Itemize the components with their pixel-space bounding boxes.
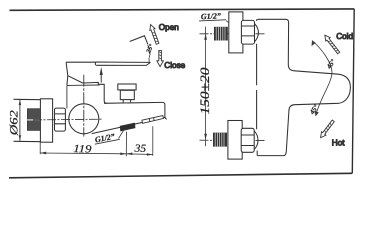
label G1/2 left view xyxy=(93,131,120,145)
faucet body front outline xyxy=(257,19,350,155)
svg-text:45°: 45° xyxy=(308,103,321,117)
lever raised position line xyxy=(130,36,148,45)
lever tip tick xyxy=(148,58,150,63)
arc arrowhead top xyxy=(312,41,316,47)
cold arrow (outlined, hatched) xyxy=(323,33,341,54)
bottom escutcheon xyxy=(228,121,242,160)
dimension D62 extension top xyxy=(14,98,42,100)
svg-text:150±20: 150±20 xyxy=(198,67,212,115)
dimension 35 line xyxy=(126,153,153,156)
top escutcheon xyxy=(229,12,243,53)
extension line hose connector xyxy=(152,126,154,156)
svg-text:Cold: Cold xyxy=(336,32,353,41)
body top line xyxy=(67,84,100,86)
svg-text:Open: Open xyxy=(159,23,179,32)
body left edge upper xyxy=(256,19,258,129)
top hex nut front xyxy=(241,20,258,44)
spout top edge xyxy=(104,102,167,119)
dimension 119 arrows xyxy=(40,152,46,155)
svg-text:Close: Close xyxy=(164,61,185,70)
bottom thread nipple (hatched) xyxy=(213,133,227,147)
close arrow (outlined) xyxy=(157,50,164,66)
handle base cap xyxy=(66,62,95,85)
hex nut side view xyxy=(55,108,66,131)
top thread nipple (hatched) xyxy=(214,27,228,41)
valve body circle xyxy=(69,104,99,134)
wall flange escutcheon xyxy=(40,99,52,142)
dimension 150+-20 line xyxy=(205,27,207,147)
dimension D62 extension bottom xyxy=(14,140,53,143)
leader G1/2 top xyxy=(226,21,234,26)
hose connector nut xyxy=(142,116,164,124)
top inlet centerline xyxy=(200,33,267,35)
arrows 150+-20 xyxy=(204,34,207,40)
arc arrowhead bottom xyxy=(315,111,319,116)
dimension 35 arrows xyxy=(126,153,132,156)
border frame bottom xyxy=(9,173,352,178)
svg-text:Hot: Hot xyxy=(332,139,345,148)
spout bottom diagonal xyxy=(92,117,165,133)
body left edge xyxy=(66,85,68,108)
25 degree arc xyxy=(148,45,150,58)
upper body housing xyxy=(83,82,107,103)
aerator outlet block (solid) xyxy=(120,123,136,132)
border frame right xyxy=(352,9,354,173)
svg-text:35: 35 xyxy=(133,143,146,155)
extension line wall plane xyxy=(39,142,41,154)
svg-text:119: 119 xyxy=(73,143,92,156)
svg-text:45°: 45° xyxy=(325,58,338,72)
wall thread nipple (hatched) xyxy=(27,108,40,131)
leader G1/2 left xyxy=(119,127,126,139)
dimension D62 line xyxy=(19,100,21,141)
centerline horizontal xyxy=(33,118,103,121)
diverter knob xyxy=(118,84,136,103)
open arrow (outlined, hatched) xyxy=(148,24,160,45)
svg-text:25°: 25° xyxy=(145,43,156,55)
centerline vertical xyxy=(83,75,85,137)
dimension D62 arrow top xyxy=(19,100,22,106)
45 degree S-curve xyxy=(312,41,332,116)
border frame top xyxy=(10,9,355,10)
dimension D62 arrow bottom xyxy=(19,135,22,141)
dimension 119 line xyxy=(40,152,126,155)
svg-text:Ø62: Ø62 xyxy=(6,110,20,136)
label G1/2 top view xyxy=(199,11,226,21)
body left edge lower xyxy=(256,151,258,156)
extension line aerator xyxy=(125,132,127,157)
flow arrow under lever xyxy=(100,74,102,83)
lever handle at rest xyxy=(95,62,150,65)
bottom hex nut front xyxy=(241,128,258,152)
bottom inlet centerline xyxy=(200,139,267,141)
hot arrow (outlined, hatched) xyxy=(318,119,335,139)
